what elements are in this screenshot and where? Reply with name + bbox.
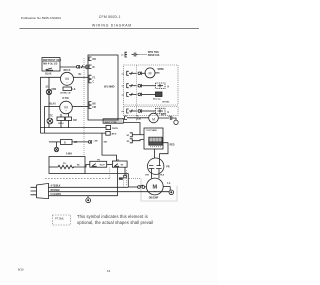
svg-text:5-WH: 5-WH	[66, 154, 72, 156]
svg-text:CM HM | CM: CM HM | CM	[60, 93, 71, 95]
svg-text:ws: ws	[122, 73, 124, 75]
svg-text:IF BO: IF BO	[63, 98, 69, 100]
svg-text:SPRE: SPRE	[158, 69, 165, 71]
svg-text:SNSR 10K: SNSR 10K	[148, 54, 160, 57]
svg-text:WIRING DIAGRAM: WIRING DIAGRAM	[92, 23, 132, 27]
svg-text:BROWN: BROWN	[51, 190, 60, 192]
svg-text:DEFROST 02D: DEFROST 02D	[43, 58, 62, 62]
svg-text:DR: DR	[93, 59, 97, 61]
svg-text:a NB: a NB	[94, 140, 99, 142]
svg-text:F1: F1	[93, 77, 96, 79]
svg-text:C: C	[93, 81, 95, 83]
svg-text:RD: RD	[77, 165, 80, 167]
svg-text:RL: RL	[79, 74, 83, 76]
svg-text:FTC: FTC	[48, 116, 53, 118]
svg-text:PD/PN: PD/PN	[112, 128, 118, 130]
svg-text:BLAX: BLAX	[50, 103, 57, 106]
svg-text:ws: ws	[122, 86, 124, 88]
svg-text:ws: ws	[122, 111, 124, 113]
svg-text:This symbol indicates this ele: This symbol indicates this element is	[77, 214, 148, 219]
svg-text:RED: RED	[170, 144, 175, 146]
svg-text:SPCWL: SPCWL	[162, 101, 170, 103]
svg-text:RD: RD	[127, 141, 130, 143]
svg-text:~: ~	[66, 80, 68, 84]
svg-text:~: ~	[65, 108, 67, 112]
svg-text:W1 NMD: W1 NMD	[104, 84, 115, 88]
svg-text:D: D	[64, 142, 66, 144]
svg-text:RLB: RLB	[160, 174, 164, 176]
svg-text:1.3: 1.3	[168, 116, 171, 118]
svg-text:8/10: 8/10	[18, 268, 24, 272]
svg-text:4B W: 4B W	[112, 133, 117, 136]
svg-text:DB/CMP: DB/CMP	[149, 196, 159, 199]
svg-text:LE: LE	[73, 89, 76, 91]
svg-text:BK: BK	[93, 104, 97, 106]
svg-text:~: ~	[154, 190, 156, 194]
svg-text:Publication No 5995-CS0404: Publication No 5995-CS0404	[21, 16, 61, 20]
svg-text:H: H	[168, 112, 170, 114]
svg-text:PR: PR	[166, 166, 170, 168]
svg-text:NH 4-3c 1/3: NH 4-3c 1/3	[43, 61, 58, 65]
svg-text:PN: PN	[63, 163, 66, 165]
svg-text:M: M	[152, 118, 155, 122]
svg-text:5-01/GRN: 5-01/GRN	[51, 194, 62, 196]
svg-text:optional, the actual shapes sh: optional, the actual shapes shall prevai…	[77, 220, 153, 225]
svg-text:M: M	[93, 67, 95, 69]
svg-text:OVR: OVR	[145, 174, 150, 176]
svg-text:RL: RL	[137, 115, 139, 117]
svg-text:16: 16	[107, 269, 111, 273]
svg-text:CM LO: CM LO	[58, 123, 64, 125]
svg-text:W1: W1	[127, 135, 130, 137]
svg-text:ws: ws	[122, 94, 124, 96]
svg-text:CM: CM	[73, 120, 77, 122]
svg-text:H: H	[168, 87, 170, 89]
svg-text:50M: 50M	[52, 89, 57, 91]
svg-text:4-73/BLK: 4-73/BLK	[51, 184, 61, 187]
svg-text:BLAX: BLAX	[45, 72, 52, 75]
svg-text:NR FA: NR FA	[64, 69, 71, 72]
svg-text:TB: TB	[121, 165, 124, 167]
svg-text:TOUT: TOUT	[100, 165, 106, 167]
svg-text:M: M	[149, 71, 152, 75]
svg-text:TUCCYBER: TUCCYBER	[146, 130, 157, 132]
svg-text:TAB: TAB	[104, 141, 108, 144]
svg-text:WTR: WTR	[161, 115, 167, 117]
svg-text:CFM 500D-1: CFM 500D-1	[99, 15, 121, 19]
svg-text:W1: W1	[74, 142, 78, 144]
svg-text:ws: ws	[121, 55, 123, 57]
svg-text:FM: FM	[93, 107, 96, 109]
svg-text:K3: K3	[117, 159, 119, 161]
svg-text:1-3: 1-3	[167, 183, 171, 185]
svg-text:Meas Imp: Meas Imp	[153, 99, 161, 101]
svg-text:PT SML: PT SML	[55, 217, 65, 220]
